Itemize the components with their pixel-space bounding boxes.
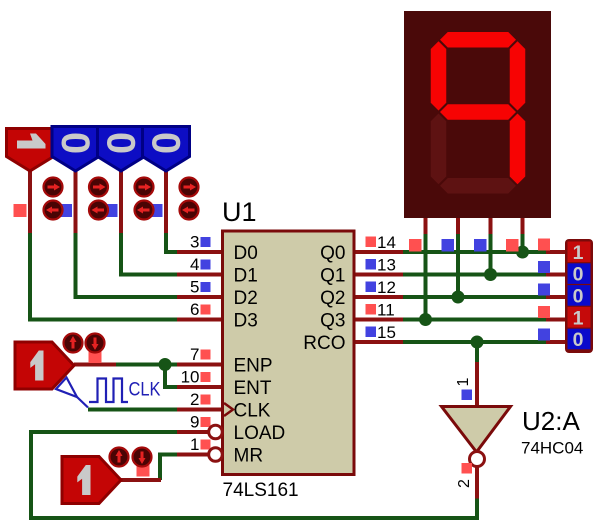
svg-text:ENT: ENT [234, 378, 272, 399]
svg-text:1: 1 [190, 435, 199, 454]
svg-text:D1: D1 [234, 266, 258, 287]
svg-text:Q1: Q1 [320, 266, 345, 287]
svg-text:9: 9 [190, 413, 199, 432]
svg-text:Q2: Q2 [320, 288, 345, 309]
svg-text:10: 10 [181, 368, 200, 387]
svg-text:11: 11 [377, 301, 395, 320]
svg-text:D2: D2 [234, 288, 258, 309]
svg-text:RCO: RCO [303, 333, 345, 354]
svg-text:0: 0 [573, 329, 584, 351]
svg-text:4: 4 [190, 255, 199, 274]
svg-text:13: 13 [377, 256, 396, 275]
svg-text:0: 0 [99, 132, 143, 154]
svg-text:6: 6 [190, 300, 199, 319]
svg-text:0: 0 [144, 132, 188, 154]
svg-text:D3: D3 [234, 311, 258, 332]
svg-text:2: 2 [456, 479, 473, 488]
svg-text:0: 0 [573, 264, 584, 286]
svg-text:Q0: Q0 [320, 243, 345, 264]
svg-text:ENP: ENP [234, 356, 273, 377]
svg-text:74HC04: 74HC04 [521, 439, 583, 458]
svg-text:U2:A: U2:A [522, 406, 580, 436]
svg-text:CLK: CLK [234, 401, 271, 422]
svg-text:7: 7 [190, 345, 199, 364]
svg-text:5: 5 [190, 278, 199, 297]
svg-text:Q3: Q3 [320, 311, 345, 332]
svg-text:0: 0 [53, 132, 97, 154]
svg-text:1: 1 [573, 242, 584, 264]
svg-text:14: 14 [377, 233, 396, 252]
svg-text:74LS161: 74LS161 [223, 480, 299, 501]
svg-text:1: 1 [455, 378, 472, 387]
svg-text:MR: MR [234, 446, 264, 467]
svg-text:12: 12 [377, 278, 396, 297]
svg-text:2: 2 [190, 390, 199, 409]
svg-text:15: 15 [377, 323, 396, 342]
svg-text:3: 3 [190, 233, 199, 252]
svg-text:LOAD: LOAD [234, 423, 286, 444]
svg-text:0: 0 [573, 286, 584, 308]
svg-text:U1: U1 [222, 197, 257, 227]
svg-text:1: 1 [573, 307, 584, 329]
svg-text:CLK: CLK [129, 380, 161, 401]
svg-text:D0: D0 [234, 243, 258, 264]
